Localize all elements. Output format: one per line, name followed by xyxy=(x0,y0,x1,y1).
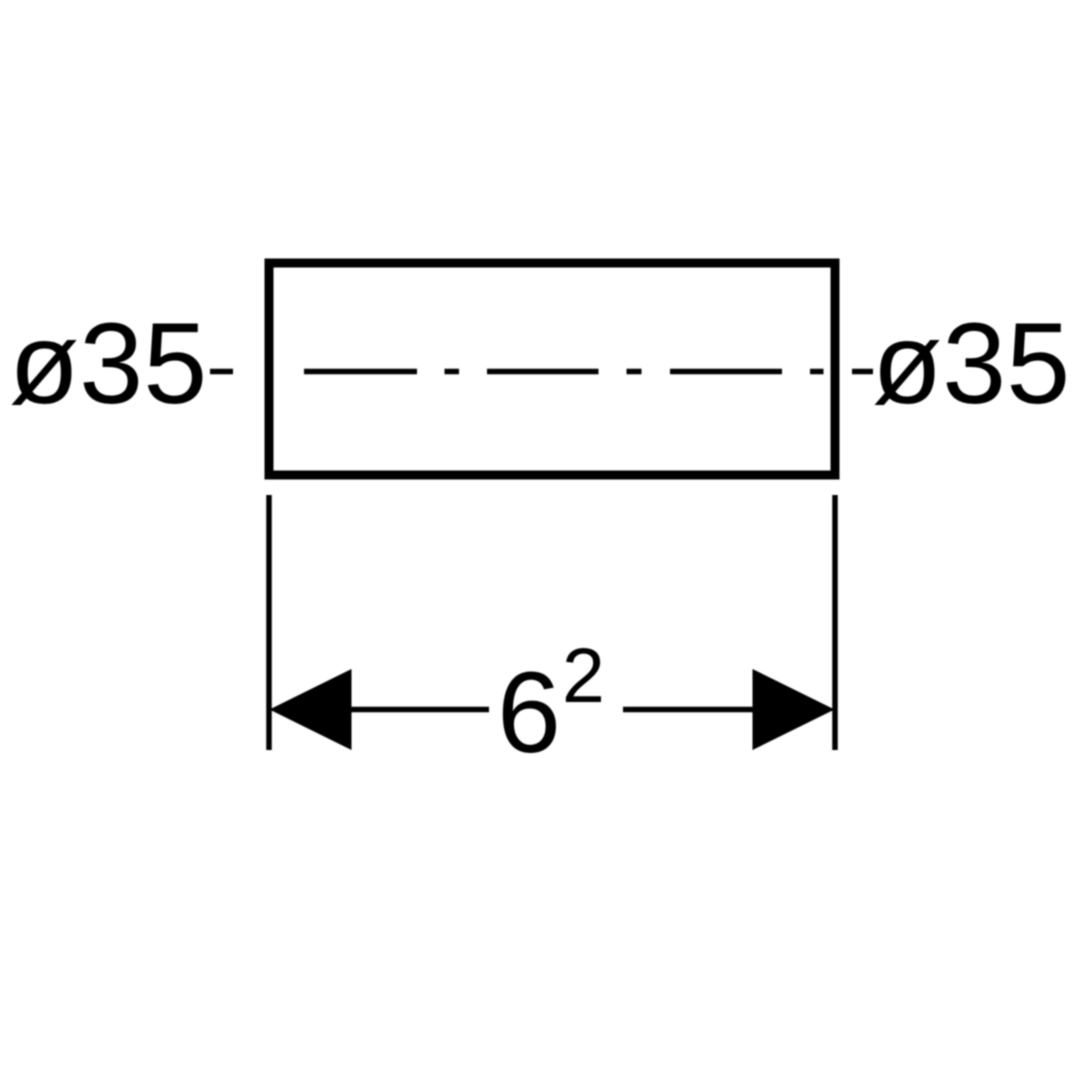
arrowhead right xyxy=(753,669,835,750)
wire: centerline dash right of rectangle xyxy=(852,369,873,375)
dimension extension line right xyxy=(832,495,838,750)
svg-text:ø35: ø35 xyxy=(872,300,1070,428)
wire: centerline dash before right edge xyxy=(810,369,824,375)
wire: centerline dash left of rectangle xyxy=(210,369,233,375)
dimension line left segment xyxy=(351,707,489,713)
svg-text:ø35: ø35 xyxy=(9,300,207,428)
svg-text:2: 2 xyxy=(562,633,605,719)
wire: centerline dot 1 xyxy=(445,369,460,375)
centerline (dash-dot axis) xyxy=(210,369,873,375)
dimension line right segment xyxy=(623,707,753,713)
wire: centerline long dash 2 xyxy=(487,369,599,375)
wire: centerline long dash 1 xyxy=(304,369,417,375)
dimension extension line left xyxy=(266,495,272,750)
arrowhead left xyxy=(270,669,352,750)
body rectangle (pipe outline) xyxy=(269,263,835,475)
wire: centerline dot 2 xyxy=(627,369,642,375)
wire: centerline long dash 3 xyxy=(670,369,782,375)
svg-text:6: 6 xyxy=(497,649,561,777)
